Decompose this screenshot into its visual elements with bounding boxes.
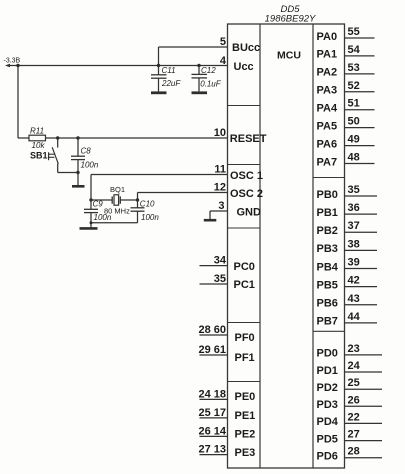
ground C11 [151, 91, 167, 94]
pin name PC1 [234, 279, 255, 291]
pin number 39 [348, 257, 360, 269]
pin number 35 [348, 184, 360, 196]
pin number 23 [348, 343, 360, 355]
pin name PE3 [235, 447, 256, 459]
label SB1 [30, 151, 48, 161]
svg-text:RESET: RESET [230, 133, 267, 145]
svg-text:PD0: PD0 [317, 348, 338, 360]
pin name PB4 [317, 261, 339, 273]
MCU right column divider [312, 24, 314, 468]
label C10 [140, 200, 155, 209]
reference designator DD5 [280, 4, 300, 15]
wire SB1 to ground node [58, 172, 78, 174]
label R11 [30, 126, 44, 135]
svg-text:44: 44 [348, 311, 361, 323]
pin name PA6 [317, 138, 338, 150]
svg-text:27 13: 27 13 [198, 444, 226, 456]
pin number 4 [220, 55, 227, 67]
pin number 24 [348, 360, 361, 372]
wire stub pin 24 PD1 [345, 371, 383, 373]
svg-text:PA7: PA7 [317, 156, 338, 168]
pin number 24 18 [198, 388, 226, 400]
pin number 27 13 [198, 444, 226, 456]
pin name PA1 [317, 49, 338, 61]
pin number 27 [348, 429, 360, 441]
pin name PD3 [317, 399, 338, 411]
pin number 49 [348, 134, 360, 146]
svg-text:55: 55 [348, 26, 360, 38]
pin name PB1 [317, 207, 338, 219]
wire stub pin 51 PA4 [345, 109, 375, 111]
svg-text:PA3: PA3 [317, 85, 338, 97]
pin number 51 [348, 98, 360, 110]
capacitor C11 [151, 66, 167, 92]
node SB1 / C8 ground junction [76, 171, 79, 174]
svg-text:28 60: 28 60 [198, 324, 226, 336]
pin name PE0 [235, 391, 256, 403]
svg-text:PB6: PB6 [317, 298, 338, 310]
svg-text:PD6: PD6 [317, 451, 338, 463]
resistor R11 [29, 135, 46, 141]
node C8 branch [76, 136, 79, 139]
wire stub pin 50 PA5 [345, 127, 375, 129]
wire stub pin 54 PA1 [345, 55, 375, 57]
svg-text:52: 52 [348, 80, 360, 92]
pin number 34 [214, 255, 227, 267]
node crystal left [89, 198, 92, 201]
pin number 26 [348, 394, 360, 406]
pin number 55 [348, 26, 360, 38]
pin name PD4 [317, 416, 339, 428]
svg-text:100n: 100n [141, 213, 159, 222]
svg-text:10k: 10k [32, 141, 46, 150]
MCU right column PA/PB divider [313, 177, 345, 179]
svg-text:PA6: PA6 [317, 138, 338, 150]
pin name PA5 [317, 120, 338, 132]
wire stub pin 28 PD6 [345, 457, 383, 459]
svg-text:100n: 100n [81, 161, 99, 170]
wire stub pin 26 PD3 [345, 405, 383, 407]
pin number 54 [348, 44, 361, 56]
svg-text:PF1: PF1 [235, 352, 255, 364]
pin name BUcc [232, 42, 260, 54]
svg-text:28: 28 [348, 446, 360, 458]
crystal BQ1 [91, 195, 138, 205]
svg-text:PD3: PD3 [317, 399, 338, 411]
pin number 43 [348, 293, 360, 305]
svg-text:PB5: PB5 [317, 279, 338, 291]
svg-text:PB1: PB1 [317, 207, 338, 219]
wire stub pin 25 17 [200, 417, 228, 419]
svg-text:SB1: SB1 [30, 151, 48, 161]
pin name PA3 [317, 85, 338, 97]
svg-text:PA4: PA4 [317, 103, 338, 115]
net label -3.3V [4, 58, 21, 65]
svg-text:PD2: PD2 [317, 382, 338, 394]
pin name PC0 [234, 261, 255, 273]
pin number 26 14 [198, 425, 226, 437]
part number 1986BE92Y [265, 14, 316, 25]
svg-text:PB4: PB4 [317, 261, 339, 273]
wire stub pin 36 PB1 [345, 213, 378, 215]
wire stub pin 49 PA6 [345, 145, 375, 147]
ground GND pin [204, 219, 217, 222]
svg-text:PB7: PB7 [317, 316, 338, 328]
pin number 42 [348, 275, 360, 287]
svg-text:C11: C11 [162, 66, 176, 75]
wire stub pin 48 PA7 [345, 163, 375, 165]
svg-text:0.1uF: 0.1uF [200, 80, 222, 89]
pin name PA4 [317, 103, 338, 115]
svg-text:PB3: PB3 [317, 243, 338, 255]
svg-text:100n: 100n [94, 213, 112, 222]
pin number 10 [214, 127, 226, 139]
wire stub pin 34 [200, 265, 228, 267]
svg-text:22uF: 22uF [161, 79, 181, 88]
svg-text:26 14: 26 14 [198, 425, 226, 437]
pin number 48 [348, 152, 360, 164]
pin name PB2 [317, 225, 338, 237]
svg-text:35: 35 [214, 273, 226, 285]
svg-text:OSC 2: OSC 2 [230, 188, 263, 200]
capacitor C12 [192, 66, 208, 92]
svg-text:PD5: PD5 [317, 433, 338, 445]
wire stub pin 38 PB3 [345, 249, 378, 251]
wire stub pin 39 PB4 [345, 268, 378, 270]
MCU left column power section divider [228, 105, 261, 107]
svg-text:BUcc: BUcc [232, 42, 260, 54]
pin name PD0 [317, 348, 338, 360]
svg-text:-3.3B: -3.3B [4, 58, 21, 65]
svg-text:3: 3 [218, 200, 224, 212]
supply rail arrow tip [5, 64, 10, 67]
svg-text:PE0: PE0 [235, 391, 256, 403]
wire stub pin 25 PD2 [345, 388, 383, 390]
pin name PD1 [317, 365, 338, 377]
pin name PD2 [317, 382, 338, 394]
svg-text:49: 49 [348, 134, 360, 146]
svg-text:OSC 1: OSC 1 [230, 170, 263, 182]
pin number 29 61 [198, 344, 226, 356]
pin number 12 [214, 182, 226, 194]
wire OSC 1 pin 11 [91, 175, 228, 201]
pin name PF0 [235, 332, 255, 344]
wire -3.3V rail to Ucc pin 4 [7, 65, 228, 67]
svg-text:38: 38 [348, 238, 360, 250]
node rail / R11 branch [16, 64, 19, 67]
svg-text:R11: R11 [30, 126, 44, 135]
MCU label [277, 50, 301, 62]
svg-text:MCU: MCU [277, 50, 301, 62]
pin name PA7 [317, 156, 338, 168]
pin name GND [237, 207, 262, 219]
pin number 22 [348, 411, 360, 423]
label C8 [81, 147, 92, 156]
svg-text:PB0: PB0 [317, 189, 338, 201]
MCU right column PB/PD divider [313, 330, 345, 332]
wire stub pin 44 PB7 [345, 322, 378, 324]
value 0.1uF [200, 80, 222, 89]
pin number 36 [348, 202, 360, 214]
svg-text:42: 42 [348, 275, 360, 287]
svg-text:43: 43 [348, 293, 360, 305]
svg-text:C8: C8 [81, 147, 92, 156]
wire stub pin 35 PB0 [345, 195, 378, 197]
pin number 28 [348, 446, 360, 458]
svg-text:51: 51 [348, 98, 360, 110]
svg-text:34: 34 [214, 255, 227, 267]
svg-text:23: 23 [348, 343, 360, 355]
wire stub pin 43 PB6 [345, 304, 378, 306]
svg-text:53: 53 [348, 62, 360, 74]
MCU left column osc section divider [228, 227, 261, 229]
svg-text:PC1: PC1 [234, 279, 255, 291]
pin name OSC 1 [230, 170, 263, 182]
wire rail down to R11 [18, 66, 29, 139]
svg-text:C10: C10 [140, 200, 155, 209]
svg-text:48: 48 [348, 152, 360, 164]
svg-text:1986BE92Y: 1986BE92Y [265, 14, 316, 25]
pin number 35 [214, 273, 226, 285]
pin name OSC 2 [230, 188, 263, 200]
node crystal right [136, 198, 139, 201]
pin number 11 [214, 164, 226, 176]
pin number 28 60 [198, 324, 226, 336]
pin name PB7 [317, 316, 338, 328]
wire stub pin 23 PD0 [345, 354, 383, 356]
svg-text:22: 22 [348, 411, 360, 423]
ground crystal [80, 227, 98, 230]
value 10k [32, 141, 46, 150]
svg-text:39: 39 [348, 257, 360, 269]
pin number 3 [218, 200, 224, 212]
svg-text:35: 35 [348, 184, 360, 196]
svg-text:36: 36 [348, 202, 360, 214]
svg-text:50: 50 [348, 116, 360, 128]
value 100n [81, 161, 99, 170]
MCU U-DD5 outer box [228, 24, 345, 468]
wire stub pin 53 PA2 [345, 73, 375, 75]
label C12 [201, 66, 216, 75]
svg-text:10: 10 [214, 127, 226, 139]
pin name PF1 [235, 352, 255, 364]
wire stub pin 42 PB5 [345, 286, 378, 288]
pin number 25 17 [198, 407, 226, 419]
node rail / C12 [197, 64, 200, 67]
pin name PA0 [317, 31, 338, 43]
pin number 52 [348, 80, 360, 92]
MCU left column reset section divider [228, 164, 261, 166]
svg-text:Ucc: Ucc [234, 61, 254, 73]
svg-text:C9: C9 [93, 200, 104, 209]
MCU left column PC section divider [228, 322, 261, 324]
wire stub pin 28 60 [200, 334, 228, 336]
label C11 [162, 66, 176, 75]
value 100n [141, 213, 159, 222]
pin name PE2 [235, 428, 256, 440]
svg-text:PA2: PA2 [317, 67, 338, 79]
value 100n [94, 213, 112, 222]
wire stub pin 55 PA0 [345, 37, 375, 39]
pin name PB0 [317, 189, 338, 201]
pin name PA2 [317, 67, 338, 79]
svg-text:PE1: PE1 [235, 410, 256, 422]
svg-text:5: 5 [220, 36, 226, 48]
svg-text:11: 11 [214, 164, 226, 176]
svg-text:PA5: PA5 [317, 120, 338, 132]
pin number 37 [348, 220, 360, 232]
MCU left column PF section divider [228, 381, 261, 383]
pin name PD6 [317, 451, 338, 463]
label BQ1 [110, 185, 125, 194]
label C9 [93, 200, 104, 209]
wire stub pin 26 14 [200, 435, 228, 437]
svg-text:PD1: PD1 [317, 365, 338, 377]
svg-text:54: 54 [348, 44, 361, 56]
svg-text:24 18: 24 18 [198, 388, 226, 400]
wire stub pin 37 PB2 [345, 231, 378, 233]
svg-text:25 17: 25 17 [198, 407, 226, 419]
pin name RESET [230, 133, 267, 145]
svg-text:25: 25 [348, 377, 360, 389]
wire BUcc pin 5 [159, 47, 228, 66]
svg-text:27: 27 [348, 429, 360, 441]
svg-text:BQ1: BQ1 [110, 185, 125, 194]
svg-text:26: 26 [348, 394, 360, 406]
pin name Ucc [234, 61, 254, 73]
wire stub pin 52 PA3 [345, 91, 375, 93]
svg-text:PD4: PD4 [317, 416, 339, 428]
wire C9 to C10 bottom [91, 222, 138, 224]
pin number 53 [348, 62, 360, 74]
pin number 44 [348, 311, 361, 323]
svg-text:PB2: PB2 [317, 225, 338, 237]
capacitor C8 [71, 138, 85, 185]
switch SB1 [49, 138, 59, 173]
pin number 50 [348, 116, 360, 128]
svg-text:PC0: PC0 [234, 261, 255, 273]
node SB1 branch [56, 136, 59, 139]
svg-text:GND: GND [237, 207, 262, 219]
node C9 ground junction [90, 221, 93, 224]
svg-text:PE3: PE3 [235, 447, 256, 459]
pin name PE1 [235, 410, 256, 422]
svg-text:PE2: PE2 [235, 428, 256, 440]
svg-text:24: 24 [348, 360, 361, 372]
svg-text:29 61: 29 61 [198, 344, 226, 356]
svg-text:C12: C12 [201, 66, 216, 75]
wire OSC 2 pin 12 [138, 193, 228, 201]
pin name PB3 [317, 243, 338, 255]
pin number 38 [348, 238, 360, 250]
wire stub pin 22 PD4 [345, 422, 383, 424]
wire stub pin 27 13 [200, 454, 228, 456]
pin name PB5 [317, 279, 338, 291]
node rail / C11 [157, 64, 160, 67]
svg-text:12: 12 [214, 182, 226, 194]
wire stub pin 24 18 [200, 398, 228, 400]
svg-text:PA1: PA1 [317, 49, 338, 61]
ground C8 [72, 185, 85, 188]
pin number 5 [220, 36, 226, 48]
svg-text:PA0: PA0 [317, 31, 338, 43]
wire stub pin 35 [200, 283, 228, 285]
pin name PB6 [317, 298, 338, 310]
wire GND pin 3 [210, 211, 228, 219]
ground C12 [192, 91, 208, 94]
capacitor C9 [84, 200, 98, 227]
value 80 MHz [104, 207, 130, 216]
wire stub pin 29 61 [200, 354, 228, 356]
capacitor C10 [131, 200, 145, 223]
MCU left column divider [259, 24, 261, 468]
value 22uF [161, 79, 181, 88]
svg-text:PF0: PF0 [235, 332, 255, 344]
wire R11 to RESET pin 10 [46, 137, 228, 139]
svg-text:37: 37 [348, 220, 360, 232]
wire stub pin 27 PD5 [345, 440, 383, 442]
pin number 25 [348, 377, 360, 389]
pin name PD5 [317, 433, 338, 445]
